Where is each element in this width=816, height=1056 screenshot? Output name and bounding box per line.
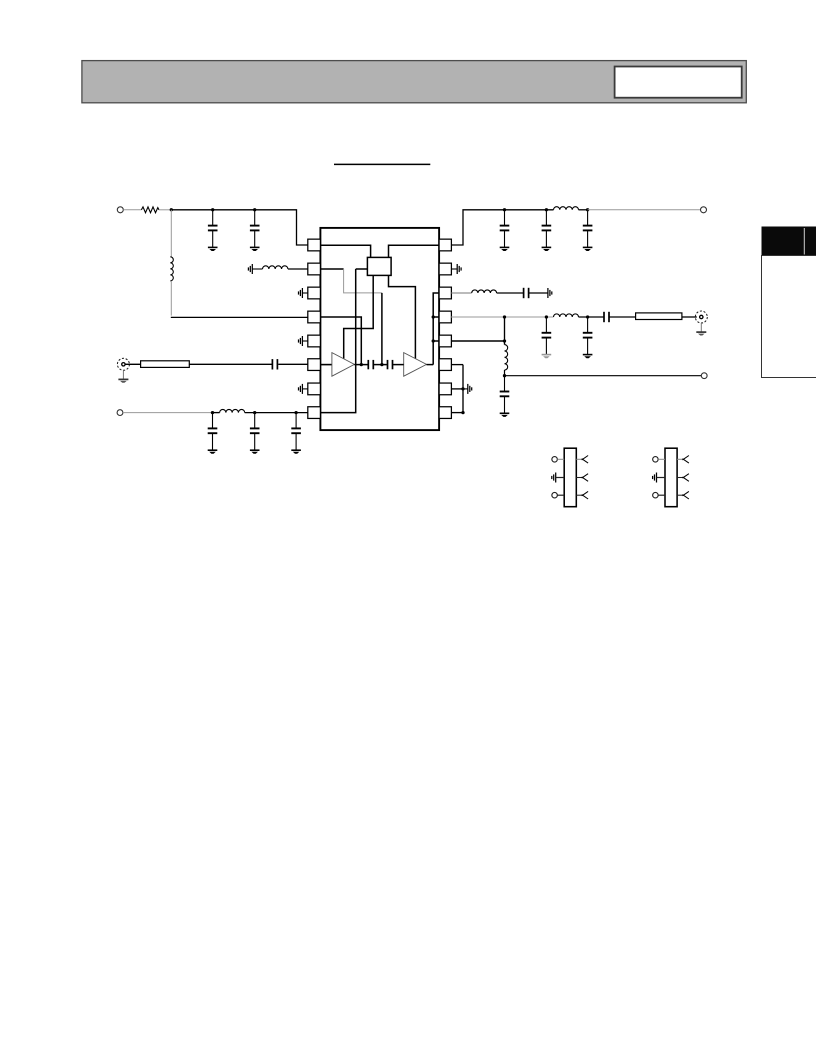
wire pin13-right rail	[451, 316, 553, 318]
inductor L7	[505, 345, 508, 370]
capacitor C16	[504, 376, 506, 392]
capacitor C10	[545, 210, 547, 226]
capacitor C7	[254, 413, 256, 429]
wire L1 down	[170, 281, 172, 316]
U1 right pin 10	[439, 383, 451, 395]
capacitor C14	[587, 317, 589, 333]
wire to pin4-left	[171, 316, 308, 318]
U1 left pin 7	[308, 383, 321, 395]
wire L7 to node O	[504, 370, 506, 376]
connector P2 ground	[656, 473, 658, 483]
node O	[503, 374, 506, 377]
side tab divider	[803, 228, 805, 255]
node F	[294, 411, 297, 414]
connector P2 body	[665, 448, 677, 507]
wire to buffer B	[393, 364, 404, 366]
inductor L3	[220, 409, 245, 412]
op-amp U1 body	[320, 228, 439, 430]
node G	[503, 208, 506, 211]
wire J1 to R1	[123, 209, 141, 211]
wire L3 to pin8-left	[245, 412, 308, 414]
ground G3 pin3-left	[301, 288, 303, 298]
wire TL2 to J5	[682, 316, 697, 318]
wire L5 to C12	[497, 292, 524, 294]
wire pin2-left route b	[344, 269, 382, 293]
wire C12 to ground	[529, 292, 548, 294]
wire right bus	[433, 293, 439, 365]
capacitor C1	[212, 210, 214, 226]
U1 left pin 3	[308, 287, 321, 299]
capacitor C6	[212, 413, 214, 429]
wire pin1-left to X1	[320, 245, 370, 257]
connector P1 body	[564, 448, 576, 507]
wire node I to J4	[588, 209, 701, 211]
wire C5 to pin6-left	[278, 363, 308, 365]
wire pin9-right to bus	[451, 412, 463, 414]
capacitor C int1	[367, 360, 369, 369]
wire pin10-right to bus	[451, 388, 463, 390]
wire node D to L3	[213, 412, 220, 414]
connector P1 out 2	[576, 477, 582, 479]
U1 right pin 16	[439, 239, 451, 251]
connector P1 ground	[555, 473, 557, 483]
node B	[211, 208, 214, 211]
coax J5	[695, 311, 707, 323]
wire X1 to pin16-right	[389, 245, 440, 257]
capacitor C5	[271, 359, 273, 369]
coax J2	[117, 358, 129, 370]
capacitor C9	[504, 210, 506, 226]
wire buffer A out	[354, 364, 367, 366]
inductor L4	[554, 207, 579, 210]
wire X1-left to vertical	[356, 268, 368, 270]
U1 right pin 9	[439, 407, 451, 419]
wire C15 to TL2	[609, 316, 636, 318]
wire pin2-left route a	[320, 268, 343, 270]
U1 right pin 14	[439, 287, 451, 299]
node L	[545, 315, 548, 318]
U1 right pin 15	[439, 263, 451, 275]
terminal J4	[701, 207, 707, 213]
connector P2 out 1	[677, 458, 683, 460]
wire bus to pin13	[433, 316, 439, 318]
capacitor C int2	[387, 360, 389, 369]
node C	[253, 208, 256, 211]
inductor L2	[263, 266, 288, 269]
wire buffer B out	[427, 364, 434, 366]
connector P1 out 3	[576, 494, 582, 496]
inductor L5	[472, 290, 497, 293]
connector P2 out 2	[677, 477, 683, 479]
capacitor C2	[254, 210, 256, 226]
connector P1 pin1 terminal	[552, 457, 558, 463]
oscillator box X1	[367, 257, 391, 275]
wire G2 to L2	[252, 268, 262, 270]
U1 right pin 12	[439, 335, 451, 347]
wire R1 to node	[159, 209, 171, 211]
wire J3 to node D	[123, 412, 213, 414]
terminal J1	[117, 207, 123, 213]
node Q	[461, 411, 464, 414]
connector P1 out 1	[576, 458, 582, 460]
wire J2 to TL1	[125, 363, 140, 365]
microstrip TL1	[141, 361, 190, 368]
wire pin4-left to node	[320, 317, 361, 365]
side tab white box	[762, 256, 816, 378]
wire pin6-left input	[320, 364, 332, 366]
ground G2	[251, 264, 253, 274]
inductor L6	[554, 314, 579, 317]
wire bus to pin12	[433, 340, 439, 342]
ground G15 pin15-right	[451, 268, 457, 270]
node bus r5	[432, 339, 435, 342]
node int b	[380, 363, 383, 366]
connector P2 out 3	[677, 494, 683, 496]
U1 right pin 13	[439, 311, 451, 323]
capacitor C8	[295, 413, 297, 429]
capacitor C15	[603, 312, 605, 322]
U1 left pin 4	[308, 311, 321, 323]
title underline	[334, 163, 430, 165]
U1 left pin 6	[308, 359, 321, 371]
buffer A	[332, 353, 355, 377]
node D	[211, 411, 214, 414]
wire node O to J6	[505, 375, 702, 377]
wire right ground bus	[462, 365, 464, 413]
wire between internal caps	[374, 364, 387, 366]
wire top-left rail	[171, 210, 307, 245]
header logo box	[615, 67, 742, 98]
ground G14	[547, 288, 549, 298]
buffer B	[404, 353, 427, 377]
node K	[503, 315, 506, 318]
header bar	[82, 61, 746, 103]
wire X1 bottom-right to buffer B	[389, 275, 416, 358]
node E	[253, 411, 256, 414]
wire node K down	[504, 317, 506, 345]
wire pin16-right up	[451, 210, 553, 245]
capacitor C11	[587, 210, 589, 226]
resistor R1	[141, 207, 159, 213]
wire pin12-right	[451, 340, 504, 342]
wire pin11-right to bus	[451, 364, 463, 366]
node I	[586, 208, 589, 211]
U1 right pin 11	[439, 359, 451, 371]
wire L4 to node I	[579, 209, 588, 211]
terminal J3	[117, 410, 123, 416]
connector P2 pin1 terminal	[653, 457, 659, 463]
connector P1 pin3 terminal	[552, 492, 558, 498]
wire vertical to pin8-left	[320, 269, 355, 413]
node A	[170, 208, 173, 211]
node int a	[360, 363, 363, 366]
node P	[461, 387, 464, 390]
wire pin14-right to L5	[451, 292, 472, 294]
connector P2 pin3 terminal	[653, 492, 659, 498]
wire pin2-left route c	[381, 293, 383, 365]
ground G7 pin7-left	[301, 384, 303, 394]
capacitor C12	[523, 288, 525, 298]
U1 left pin 5	[308, 335, 321, 347]
wire TL1 to C5	[189, 363, 272, 365]
ground G10	[463, 388, 468, 390]
node M	[586, 315, 589, 318]
microstrip TL2	[636, 313, 682, 320]
capacitor C13	[545, 317, 547, 333]
side tab black	[762, 227, 816, 256]
U1 left pin 2	[308, 263, 321, 275]
wire L2 to pin2-left	[288, 268, 308, 270]
node H	[545, 208, 548, 211]
wire X1 bottom-left to buffer A	[344, 275, 374, 358]
ground G5 pin5-left	[301, 336, 303, 346]
node N	[503, 339, 506, 342]
inductor L1	[170, 257, 173, 281]
node bus r4	[432, 315, 435, 318]
wire L6 to node M	[579, 316, 605, 318]
wire node A down	[170, 210, 172, 257]
terminal J6	[701, 373, 707, 379]
U1 left pin 8	[308, 407, 321, 419]
U1 left pin 1	[308, 239, 321, 251]
